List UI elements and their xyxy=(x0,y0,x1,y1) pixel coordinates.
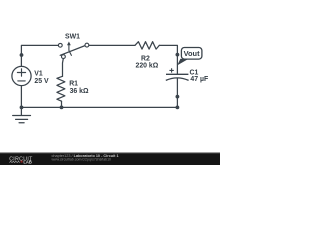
capacitor C1 curved bottom plate xyxy=(166,78,189,81)
junction dot bottom-right corner node xyxy=(176,106,180,110)
switch SW1 left terminal circle xyxy=(58,43,62,47)
Vout callout tail xyxy=(177,59,187,66)
wire V1 bottom lead to ground xyxy=(20,86,22,116)
svg-text:R1: R1 xyxy=(69,81,78,88)
junction dot C1 bottom node xyxy=(176,95,180,99)
junction dot Vout node xyxy=(176,53,180,57)
resistor R1 xyxy=(57,76,65,101)
junction dot node A on V1 top wire xyxy=(20,53,24,57)
voltage source V1 circle xyxy=(12,66,31,85)
wire C1 bottom to bottom rail corner xyxy=(176,78,178,107)
junction dot R1 bottom node xyxy=(60,106,64,110)
CircuitLab logo waves xyxy=(9,161,19,162)
V1 plus sign xyxy=(17,69,25,76)
footer black bar xyxy=(0,153,220,165)
switch SW1 right terminal circle xyxy=(85,43,89,47)
bottom rail wire xyxy=(21,106,177,108)
svg-text:V1: V1 xyxy=(34,71,43,78)
switch SW1 blade xyxy=(60,46,85,56)
svg-text:47 µF: 47 µF xyxy=(190,76,208,83)
wire switch right terminal to R2 xyxy=(89,44,135,46)
CircuitLab logo red square xyxy=(21,161,23,163)
switch SW1 bottom terminal circle xyxy=(62,55,66,59)
svg-text:Vout: Vout xyxy=(184,49,200,58)
V1 minus sign xyxy=(18,80,25,82)
capacitor C1 plus polarity mark xyxy=(169,68,173,72)
capacitor C1 top plate xyxy=(166,73,188,75)
wire R1 bottom lead xyxy=(61,101,63,107)
ground symbol xyxy=(13,116,31,123)
wire switch bottom terminal to R1 xyxy=(62,59,65,77)
resistor R2 xyxy=(135,42,159,49)
switch SW1 actuator arrow xyxy=(69,44,72,56)
svg-text:25 V: 25 V xyxy=(34,78,49,85)
svg-text:R2: R2 xyxy=(141,56,150,63)
Vout callout box xyxy=(181,48,202,60)
svg-text:220 kΩ: 220 kΩ xyxy=(136,63,159,70)
wire R2 to top-right corner down to C1 xyxy=(159,45,177,74)
svg-text:36 kΩ: 36 kΩ xyxy=(70,88,89,95)
svg-text:SW1: SW1 xyxy=(65,34,80,41)
svg-text:LAB: LAB xyxy=(23,159,31,164)
wire V1 top lead to top rail corner to switch left terminal xyxy=(21,45,58,66)
junction dot ground node left xyxy=(20,106,24,110)
switch SW1 arrowhead xyxy=(67,42,71,46)
svg-text:www.circuitlab.com/c/2pqrs7sh8: www.circuitlab.com/c/2pqrs7sh8/lab10 xyxy=(52,158,112,162)
